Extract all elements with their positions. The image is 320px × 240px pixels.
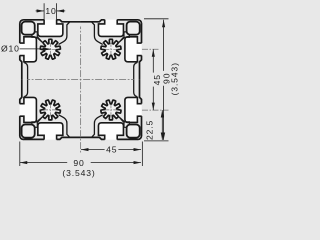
main horizontal centerline [27,79,135,81]
svg-text:Ø10: Ø10 [1,44,20,54]
svg-text:10: 10 [45,6,56,16]
bottom dim 90 [19,142,21,167]
svg-text:45: 45 [106,144,117,154]
svg-text:(3.543): (3.543) [62,168,95,178]
right dim 45 (between slot axes) [152,49,154,72]
bottom dim 45 (center to right edge) [141,142,143,167]
svg-text:45: 45 [152,74,162,85]
main vertical centerline [80,27,82,155]
dim 10 (top slot opening) [36,3,66,21]
svg-text:(3.543): (3.543) [169,62,179,95]
right dim 22.5 [161,110,163,140]
svg-text:90: 90 [73,158,84,168]
right dim 90 full height [144,19,169,141]
svg-text:22.5: 22.5 [144,120,154,140]
profile quadrants: TL TR BL BR [20,20,81,80]
slot axis extensions right [142,49,169,110]
